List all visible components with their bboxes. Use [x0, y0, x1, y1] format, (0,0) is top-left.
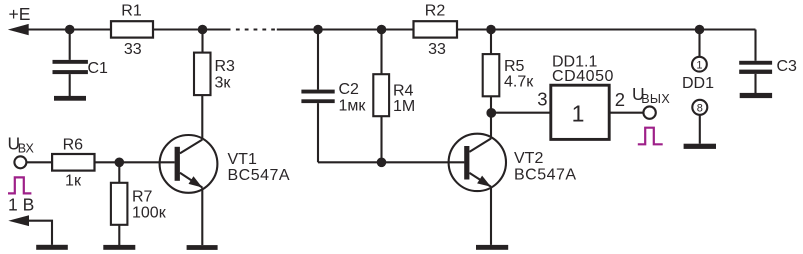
DD1 pin 1 terminal — [692, 30, 707, 72]
svg-text:C2: C2 — [339, 81, 360, 98]
R6 value 1к — [65, 172, 82, 189]
resistor R6 — [52, 136, 94, 170]
svg-text:VT1: VT1 — [228, 151, 257, 168]
capacitor C3 — [739, 30, 797, 94]
svg-text:1к: 1к — [65, 172, 82, 189]
wire R3 to VT1 collector — [201, 95, 203, 139]
ground under VT2 — [476, 245, 508, 250]
resistor R7 — [111, 162, 153, 245]
ground under R7 — [103, 245, 135, 250]
ground under C3 — [740, 93, 772, 98]
svg-text:DD1: DD1 — [682, 75, 714, 92]
svg-text:R5: R5 — [504, 58, 525, 75]
svg-text:BC547A: BC547A — [228, 167, 291, 184]
resistor R3 — [194, 30, 235, 96]
svg-text:4.7к: 4.7к — [504, 74, 534, 91]
wire VT1 emitter — [201, 188, 203, 246]
svg-text:R1: R1 — [121, 3, 142, 20]
svg-text:R3: R3 — [215, 58, 236, 75]
node Uвх label — [8, 134, 35, 156]
R7 value 100к — [132, 204, 167, 221]
svg-text:3: 3 — [537, 89, 547, 110]
node junction R4 — [377, 25, 387, 35]
wire top rail seg1 — [20, 28, 111, 30]
transistor VT1 — [160, 135, 290, 193]
node 1 В label — [8, 195, 34, 215]
ground under C1 — [54, 96, 86, 101]
terminal Uвх — [14, 156, 26, 168]
pin 2 label — [615, 89, 625, 110]
node junction R4 bottom — [377, 158, 387, 168]
svg-text:C1: C1 — [88, 60, 109, 77]
ground input return — [36, 245, 68, 250]
svg-text:8: 8 — [697, 103, 703, 115]
svg-text:ВХ: ВХ — [18, 142, 35, 156]
R3 value 3к — [215, 74, 232, 91]
supply arrow — [8, 24, 29, 35]
node +E label — [9, 4, 31, 24]
svg-text:100к: 100к — [132, 204, 167, 221]
svg-text:1мк: 1мк — [339, 98, 367, 115]
R5 value 4.7к — [504, 74, 534, 91]
ground under VT1 — [187, 245, 218, 250]
wire dashed break — [236, 28, 275, 30]
capacitor C1 — [53, 30, 109, 97]
node junction C1 — [65, 25, 75, 35]
input pulse symbol — [8, 177, 31, 193]
wire top rail seg2 — [153, 28, 231, 30]
R1 value 33 — [124, 41, 142, 58]
input return arrow — [8, 215, 29, 226]
node junction C2 — [313, 25, 323, 35]
node junction R3 — [198, 25, 208, 35]
resistor R4 — [373, 30, 413, 163]
DD1 label — [682, 75, 714, 92]
svg-text:2: 2 — [615, 89, 625, 110]
svg-text:R2: R2 — [425, 3, 446, 20]
wire input return — [27, 221, 52, 245]
R4 value 1M — [393, 98, 415, 115]
svg-text:1 В: 1 В — [8, 195, 34, 215]
svg-text:33: 33 — [124, 41, 142, 58]
op-amp buffer DD1.1 — [551, 53, 614, 139]
svg-text:CD4050: CD4050 — [552, 68, 614, 85]
output pulse symbol — [638, 128, 663, 145]
resistor R1 — [111, 3, 153, 38]
DD1 pin 8 terminal — [692, 100, 707, 144]
node Uвых label — [632, 84, 670, 106]
wire Uвх to R6 — [27, 161, 53, 163]
wire top rail seg3 — [277, 28, 414, 30]
svg-text:1: 1 — [696, 60, 702, 72]
R2 value 33 — [428, 41, 446, 58]
svg-text:1: 1 — [572, 101, 585, 127]
terminal Uвых — [643, 106, 655, 118]
capacitor C2 — [301, 30, 359, 163]
wire R6 to VT1 base — [95, 161, 175, 163]
node junction DD1 pin1 — [695, 25, 705, 35]
wire junction to DD1.1 pin3 — [491, 112, 551, 114]
node junction R5/VT2 collector — [486, 108, 496, 118]
wire top rail seg4 — [457, 28, 756, 30]
wire DD1.1 pin2 — [609, 112, 643, 114]
C2 value 1мк — [339, 98, 367, 115]
wire C2/R4 to VT2 base — [318, 161, 464, 163]
svg-text:R7: R7 — [132, 188, 153, 205]
svg-text:ВЫХ: ВЫХ — [641, 92, 670, 106]
svg-text:C3: C3 — [777, 58, 798, 75]
svg-text:+E: +E — [9, 4, 31, 24]
wire VT2 emitter — [490, 187, 492, 245]
node junction R7 top — [115, 158, 125, 168]
wire junction to VT2 collector — [490, 113, 492, 139]
pin 3 label — [537, 89, 547, 110]
transistor VT2 — [449, 134, 577, 191]
svg-text:R6: R6 — [63, 136, 84, 153]
svg-text:BC547A: BC547A — [514, 167, 577, 184]
svg-text:3к: 3к — [215, 74, 232, 91]
resistor R2 — [414, 3, 458, 38]
svg-text:33: 33 — [428, 41, 446, 58]
svg-text:1M: 1M — [393, 98, 415, 115]
node junction R5 — [486, 25, 496, 35]
ground under DD1 pin8 — [684, 144, 716, 149]
svg-text:VT2: VT2 — [514, 150, 543, 167]
resistor R5 — [483, 30, 525, 113]
